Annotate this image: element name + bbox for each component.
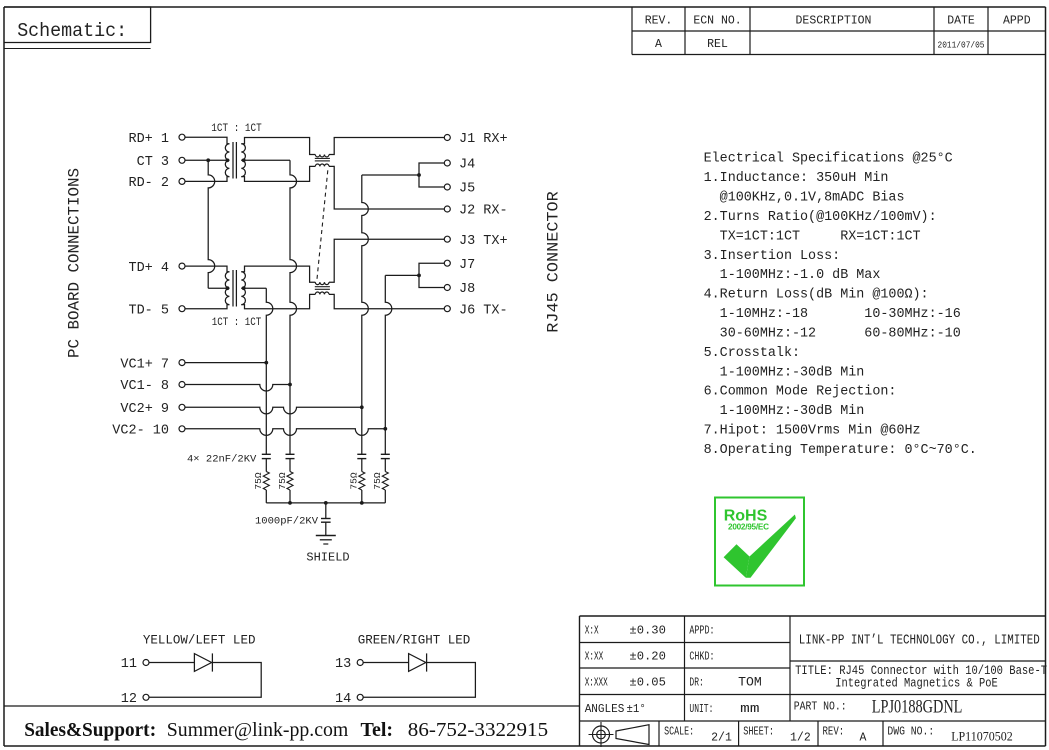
svg-text:PART NO.:: PART NO.: — [794, 701, 847, 714]
svg-text::: : — [150, 719, 157, 741]
svg-text:5.Crosstalk:: 5.Crosstalk: — [704, 346, 800, 361]
svg-text:7.Hipot: 1500Vrms Min @60Hz: 7.Hipot: 1500Vrms Min @60Hz — [704, 424, 921, 439]
svg-text:2.Turns Ratio(@100KHz/100mV):: 2.Turns Ratio(@100KHz/100mV): — [704, 210, 937, 225]
svg-text:GREEN/RIGHT LED: GREEN/RIGHT LED — [358, 634, 471, 648]
svg-text:LP11070502: LP11070502 — [951, 730, 1013, 744]
svg-text:1000pF/2KV: 1000pF/2KV — [255, 515, 319, 527]
svg-text:75Ω: 75Ω — [372, 472, 383, 489]
svg-text:J6 TX-: J6 TX- — [459, 303, 508, 318]
svg-text:13: 13 — [335, 657, 351, 672]
svg-text:RJ45 CONNECTOR: RJ45 CONNECTOR — [545, 191, 563, 333]
svg-text:75Ω: 75Ω — [277, 472, 288, 489]
svg-text:3.Insertion Loss:: 3.Insertion Loss: — [704, 249, 841, 264]
svg-text:Electrical Specifications @25°: Electrical Specifications @25°C — [704, 152, 953, 167]
svg-text:1-100MHz:-30dB Min: 1-100MHz:-30dB Min — [704, 365, 865, 380]
svg-text:SHIELD: SHIELD — [306, 551, 349, 565]
svg-text:1-100MHz:-30dB Min: 1-100MHz:-30dB Min — [704, 404, 865, 419]
svg-text:@100KHz,0.1V,8mADC Bias: @100KHz,0.1V,8mADC Bias — [704, 191, 905, 206]
svg-text:J3 TX+: J3 TX+ — [459, 234, 508, 249]
svg-text:Summer@link-pp.com: Summer@link-pp.com — [167, 719, 349, 741]
svg-text:2002/95/EC: 2002/95/EC — [728, 523, 769, 532]
svg-text:J2 RX-: J2 RX- — [459, 204, 508, 219]
svg-text:Schematic:: Schematic: — [17, 20, 127, 42]
svg-text:PC BOARD CONNECTIONS: PC BOARD CONNECTIONS — [66, 168, 84, 358]
svg-text:YELLOW/LEFT LED: YELLOW/LEFT LED — [143, 634, 256, 648]
svg-text:VC2- 10: VC2- 10 — [112, 424, 169, 439]
svg-text:Tel: Tel — [361, 719, 387, 741]
svg-text:1CT : 1CT: 1CT : 1CT — [212, 317, 262, 329]
svg-text:75Ω: 75Ω — [253, 472, 264, 489]
svg-text:TD+ 4: TD+ 4 — [128, 261, 169, 276]
svg-text:SHEET:: SHEET: — [743, 726, 774, 739]
svg-text:Integrated Magnetics & PoE: Integrated Magnetics & PoE — [835, 675, 998, 690]
svg-text:X:XX: X:XX — [585, 650, 604, 663]
svg-text:1.Inductance: 350uH Min: 1.Inductance: 350uH Min — [704, 171, 889, 186]
svg-text:VC2+ 9: VC2+ 9 — [120, 402, 169, 417]
svg-text:4× 22nF/2KV: 4× 22nF/2KV — [187, 454, 257, 466]
svg-text:SCALE:: SCALE: — [664, 726, 694, 739]
svg-text:±0.05: ±0.05 — [629, 676, 666, 689]
svg-text:J5: J5 — [459, 182, 475, 197]
svg-text::: : — [386, 719, 393, 741]
svg-text:J1 RX+: J1 RX+ — [459, 132, 508, 147]
svg-text:J7: J7 — [459, 258, 475, 273]
svg-text:REV.: REV. — [645, 15, 673, 28]
svg-text:1CT : 1CT: 1CT : 1CT — [211, 123, 262, 135]
svg-text:6.Common Mode Rejection:: 6.Common Mode Rejection: — [704, 385, 897, 400]
svg-text:CT 3: CT 3 — [137, 155, 169, 170]
svg-text:±0.30: ±0.30 — [629, 624, 666, 637]
svg-text:VC1- 8: VC1- 8 — [120, 379, 169, 394]
svg-text:14: 14 — [335, 692, 351, 707]
svg-text:1-100MHz:-1.0 dB Max: 1-100MHz:-1.0 dB Max — [704, 268, 881, 283]
svg-text:APPD: APPD — [1003, 15, 1031, 28]
svg-text:DATE: DATE — [947, 15, 975, 28]
svg-text:DWG NO.:: DWG NO.: — [887, 726, 934, 739]
svg-text:LPJ0188GDNL: LPJ0188GDNL — [872, 698, 963, 718]
svg-text:A: A — [860, 732, 867, 745]
svg-text:ANGLES: ANGLES — [585, 703, 625, 716]
svg-text:A: A — [655, 38, 662, 51]
svg-text:11: 11 — [121, 657, 137, 672]
svg-text:J8: J8 — [459, 282, 475, 297]
svg-text:TD- 5: TD- 5 — [128, 303, 169, 318]
svg-text:REV:: REV: — [823, 726, 845, 739]
svg-text:UNIT:: UNIT: — [689, 703, 713, 716]
svg-text:1/2: 1/2 — [790, 732, 811, 745]
svg-text:ECN NO.: ECN NO. — [693, 15, 741, 28]
svg-text:LINK-PP INT’L TECHNOLOGY CO.,: LINK-PP INT’L TECHNOLOGY CO., LIMITED — [799, 632, 1040, 648]
svg-text:±0.20: ±0.20 — [629, 650, 666, 663]
svg-text:X:XXX: X:XXX — [585, 676, 608, 689]
svg-text:30-60MHz:-12 60-80MHz:-10: 30-60MHz:-12 60-80MHz:-10 — [704, 326, 961, 341]
svg-text:12: 12 — [121, 692, 137, 707]
svg-text:86-752-3322915: 86-752-3322915 — [408, 719, 548, 741]
svg-text:VC1+ 7: VC1+ 7 — [120, 357, 169, 372]
svg-text:CHKD:: CHKD: — [689, 650, 714, 663]
svg-text:RD- 2: RD- 2 — [128, 176, 169, 191]
svg-text:8.Operating Temperature: 0°C~7: 8.Operating Temperature: 0°C~70°C. — [704, 443, 977, 458]
svg-text:2011/07/05: 2011/07/05 — [938, 40, 985, 51]
svg-text:±1°: ±1° — [627, 703, 646, 716]
svg-text:2/1: 2/1 — [711, 732, 732, 745]
svg-text:APPD:: APPD: — [689, 624, 714, 637]
svg-text:RD+ 1: RD+ 1 — [128, 132, 169, 147]
svg-text:75Ω: 75Ω — [349, 472, 360, 489]
svg-text:TOM: TOM — [738, 675, 762, 689]
svg-text:Sales&Support: Sales&Support — [24, 719, 150, 741]
svg-text:DR:: DR: — [689, 676, 703, 689]
svg-text:J4: J4 — [459, 158, 475, 173]
svg-text:4.Return Loss(dB Min @100Ω):: 4.Return Loss(dB Min @100Ω): — [704, 288, 929, 303]
svg-text:mm: mm — [740, 702, 759, 716]
svg-text:REL: REL — [707, 38, 728, 51]
svg-text:DESCRIPTION: DESCRIPTION — [796, 15, 872, 28]
svg-text:1-10MHz:-18 10-30MHz:-16: 1-10MHz:-18 10-30MHz:-16 — [704, 307, 961, 322]
svg-text:X:X: X:X — [585, 624, 599, 637]
svg-text:TX=1CT:1CT RX=1CT:1CT: TX=1CT:1CT RX=1CT:1CT — [704, 229, 921, 244]
